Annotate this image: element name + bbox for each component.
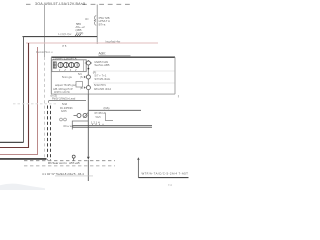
svg-text:(OA): (OA): [104, 106, 110, 110]
svg-text:2J6AP7J2K5P7A: 2J6AP7J2K5P7A: [53, 57, 77, 61]
svg-text:4 1 04' %^ 5w/9d-8 2/4w'5 . A5: 4 1 04' %^ 5w/9d-8 2/4w'5 . A5-4: [42, 172, 84, 176]
svg-text:rOn+ wE: rOn+ wE: [63, 124, 74, 128]
svg-text:9/Fc/9/6 /4/12: 9/Fc/9/6 /4/12: [94, 87, 112, 91]
svg-text:P 5: P 5: [63, 44, 67, 48]
svg-text:Pb/5/-2/9h(5)+Lead: Pb/5/-2/9h(5)+Lead: [52, 97, 76, 101]
svg-text:4N: 4N: [85, 17, 88, 21]
svg-text:1-(4)(0-0)w: 1-(4)(0-0)w: [58, 32, 71, 36]
svg-text:5/4: 5/4: [78, 72, 82, 76]
svg-text:5/4d: 5/4d: [62, 102, 68, 106]
svg-text:9/7/4/5-/4/2o: 9/7/4/5-/4/2o: [95, 77, 111, 81]
svg-text:Rh 5ear com'n A5T+A5: Rh 5ear com'n A5T+A5: [48, 161, 80, 165]
svg-text:3OA-W5/L5T-L5A/12V-BA+5: 3OA-W5/L5T-L5A/12V-BA+5: [35, 2, 85, 6]
svg-text:5mm gw: 5mm gw: [62, 75, 72, 79]
svg-text:2-(2k): 2-(2k): [76, 31, 83, 35]
svg-text:Adm:: Adm:: [99, 52, 107, 56]
svg-text:5en5or-AB5: 5en5or-AB5: [95, 63, 110, 67]
svg-text:a/iquot 78.4/5 god: a/iquot 78.4/5 god: [55, 83, 76, 87]
svg-text:PuAdoPtion u: PuAdoPtion u: [36, 50, 53, 54]
svg-text:7-4: 7-4: [168, 183, 172, 187]
svg-text:b/O5: b/O5: [61, 109, 67, 113]
svg-text:=P=Pb=A: =P=Pb=A: [94, 111, 105, 115]
svg-text:5A/5: 5A/5: [96, 116, 102, 119]
svg-text:BT+a: BT+a: [99, 22, 106, 26]
svg-text:/nyy/lad-4w: /nyy/lad-4w: [105, 39, 121, 43]
svg-text:W7F/A-7A/C/C-5-2A/4 7-A5T: W7F/A-7A/C/C-5-2A/4 7-A5T: [142, 172, 189, 176]
